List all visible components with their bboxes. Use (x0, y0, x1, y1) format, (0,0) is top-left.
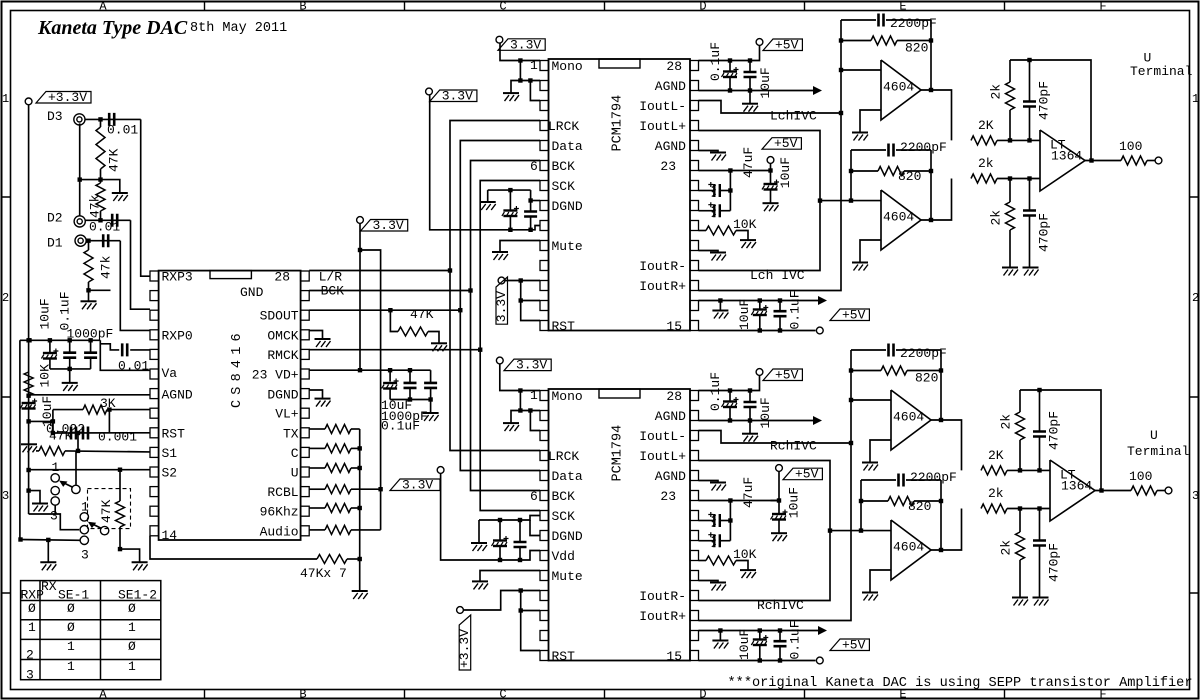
wire inv input 1 (RchIVC) (851, 399, 891, 401)
svg-text:+5V: +5V (842, 308, 866, 323)
junction Va rail bottom (68, 367, 72, 371)
power flag 3.3V (top Mono) (496, 36, 503, 43)
wire S2 row (29, 469, 150, 471)
wire output 1 (RchIVC) (931, 420, 962, 470)
ground 10K (LchIVC) (740, 240, 756, 248)
svg-text:B: B (299, 0, 306, 14)
svg-text:2k: 2k (999, 414, 1014, 430)
svg-text:0.1uF: 0.1uF (708, 42, 723, 81)
wire DGND pin link (top PCM) (531, 200, 540, 202)
ground B (switch area) (132, 562, 148, 570)
resistor 10K (RchIVC) (699, 547, 757, 570)
svg-text:0.1uF: 0.1uF (788, 620, 803, 659)
terminal +5V pin15 (RchIVC) (816, 657, 823, 664)
svg-text:1364: 1364 (1061, 479, 1092, 494)
wire fb1 right vertical (LchIVC) (930, 20, 932, 90)
wire +3.3V rail vertical (28, 105, 30, 514)
wire D3 to RXP3 (141, 119, 150, 276)
svg-text:LchIVC: LchIVC (770, 109, 817, 124)
wire LRCK bus (450, 121, 540, 451)
capacitor 47uF A (LchIVC) (699, 182, 731, 197)
ground 470pF lower (RchIVC) (1033, 598, 1049, 606)
junction mono branch (518, 58, 522, 62)
resistor 47K (C) (325, 444, 351, 453)
svg-text:0.01: 0.01 (89, 220, 120, 235)
svg-text:2k: 2k (989, 84, 1004, 100)
ground (node X) (112, 193, 128, 201)
svg-text:Lch IVC: Lch IVC (750, 268, 805, 283)
capacitor 0.01 (D3) (107, 113, 138, 138)
svg-text:Vdd: Vdd (552, 549, 575, 564)
wire gnd tap 2 (29, 491, 40, 503)
junction LRCK (448, 268, 452, 272)
wire AGND arrow (LchIVC) (699, 90, 815, 92)
junction LT fb (RchIVC) (1037, 388, 1041, 392)
resistor 10K (LchIVC) (699, 217, 757, 240)
wire VD+ row (309, 369, 430, 371)
svg-text:47K: 47K (99, 499, 114, 523)
svg-text:Data: Data (552, 469, 583, 484)
junction Data (458, 308, 462, 312)
svg-text:28: 28 (666, 59, 682, 74)
junctions fb1 left (LchIVC) (839, 38, 843, 72)
svg-text:4604: 4604 (883, 80, 914, 95)
svg-text:47K: 47K (107, 148, 122, 172)
capacitor 0.1uF electrolytic pin28 (LchIVC) (708, 42, 739, 91)
svg-text:D: D (699, 688, 706, 700)
wire fb2 left vertical (LchIVC) (850, 150, 852, 201)
resistor 47K (S1) (39, 446, 65, 455)
junction DGND cluster (508, 188, 512, 192)
svg-text:1: 1 (67, 639, 75, 654)
ground (Va rail) (62, 383, 78, 391)
U3 (bottom/Rch) right pin labels (639, 389, 686, 664)
grid letters bottom (99, 688, 1106, 700)
svg-text:U: U (291, 466, 299, 481)
svg-text:RST: RST (552, 319, 576, 334)
junction IoutL+ node (RchIVC) (828, 528, 832, 532)
svg-text:47K: 47K (49, 429, 73, 444)
svg-text:2k: 2k (989, 210, 1004, 226)
svg-text:Mute: Mute (552, 569, 583, 584)
resistor 3K (FILT) (53, 396, 116, 414)
svg-text:AGND: AGND (655, 79, 686, 94)
wire S1 row (36, 450, 39, 452)
svg-text:3.3V: 3.3V (373, 218, 404, 233)
IC U1 CS8416 body (159, 271, 301, 540)
wire FILT to pin (109, 409, 150, 411)
capacitor 10uF pin15 (RchIVC) (737, 629, 768, 661)
terminal +5V pin15 (LchIVC) (816, 327, 823, 334)
ground (OMCK) (315, 339, 331, 347)
wire +5V stem mid (RchIVC) (771, 471, 780, 500)
wire IoutL- (RchIVC) (699, 431, 852, 444)
wire LT feedback top (RchIVC) (1020, 390, 1101, 491)
ground (bottom PCM DGND) (471, 543, 487, 551)
wire fb2 left vertical (RchIVC) (860, 480, 862, 531)
ground AGND pin5 (LchIVC) (710, 153, 726, 161)
wire row2-row3 tie (top) (530, 81, 540, 101)
svg-text:Ø: Ø (128, 601, 136, 616)
svg-text:Data: Data (552, 139, 583, 154)
svg-text:4604: 4604 (893, 410, 924, 425)
junctions fb1 left (RchIVC) (849, 368, 853, 402)
junction S1 row (76, 449, 80, 453)
wire S1 to switch1 pole (75, 451, 77, 485)
svg-text:1364: 1364 (1051, 149, 1082, 164)
svg-text:RXP3: RXP3 (162, 270, 193, 285)
ground (VD+ caps) (423, 413, 439, 421)
wire top RST tie (505, 280, 540, 282)
ground 2k lower (LchIVC) (1002, 268, 1018, 276)
svg-text:4604: 4604 (883, 210, 914, 225)
capacitor 0.1uF electrolytic pin28 (RchIVC) (708, 372, 739, 421)
capacitor (bottom PCM DGND) (514, 520, 527, 560)
svg-text:AGND: AGND (655, 469, 686, 484)
op-amp 4604 second (LchIVC) (881, 190, 921, 250)
svg-text:3.3V: 3.3V (402, 478, 433, 493)
svg-text:AGND: AGND (655, 409, 686, 424)
svg-text:28: 28 (666, 389, 682, 404)
resistor 820 fb1 (RchIVC) (851, 366, 941, 386)
resistor 2K inv (RchIVC) (981, 448, 1007, 475)
svg-text:DGND: DGND (267, 387, 298, 402)
svg-text:0.001: 0.001 (98, 430, 137, 445)
svg-text:OMCK: OMCK (267, 328, 298, 343)
svg-text:BCK: BCK (321, 284, 345, 299)
arrow +5V row (LchIVC) (818, 296, 827, 305)
CS8416 right pin labels (240, 270, 299, 540)
svg-text:Ø: Ø (67, 620, 75, 635)
ground pin13 (RchIVC) (712, 641, 728, 649)
wire noninv 2 (LchIVC) (860, 240, 881, 262)
power flag 3.3V (bottom Mono) (496, 357, 503, 364)
wire noninv row LT (RchIVC) (1007, 508, 1050, 510)
wire row2-row3 tie (bottom) (530, 411, 540, 431)
U2 (top/Lch) left pin labels (548, 59, 583, 334)
svg-text:BCK: BCK (552, 159, 576, 174)
svg-text:+3.3V: +3.3V (457, 629, 472, 668)
arrow AGND (RchIVC) (813, 416, 822, 425)
svg-text:10uF: 10uF (787, 487, 802, 518)
svg-text:S1: S1 (162, 446, 178, 461)
junctions pin13 row (LchIVC) (718, 298, 782, 302)
terminal output (LchIVC) (1155, 157, 1162, 164)
svg-text:IoutR-: IoutR- (639, 589, 686, 604)
svg-text:820: 820 (898, 169, 921, 184)
junction SW2 area (118, 547, 122, 551)
resistor 47K (TX) (325, 425, 351, 434)
wire LT feedback top (LchIVC) (1010, 60, 1091, 161)
wire pin13 gnd stem (RchIVC) (719, 631, 721, 641)
wire Mute (top PCM) (500, 241, 540, 252)
ground (47K rail) (352, 591, 368, 599)
svg-text:IoutR+: IoutR+ (639, 279, 686, 294)
svg-text:2: 2 (1192, 291, 1199, 305)
connector D2 (74, 216, 85, 227)
svg-text:3: 3 (1192, 489, 1199, 503)
svg-text:RMCK: RMCK (267, 348, 298, 363)
wire VD+ gnd stem (430, 400, 432, 413)
op-amp 4604 first (RchIVC) (891, 390, 931, 450)
wire output terminal (LchIVC) (1147, 160, 1155, 162)
svg-text:RXP0: RXP0 (162, 328, 193, 343)
terminal +5V mid (LchIVC) (767, 157, 774, 164)
svg-text:6: 6 (530, 489, 538, 504)
svg-text:IoutL+: IoutL+ (639, 449, 686, 464)
wire to switch2 pole (29, 514, 80, 530)
wire inv input 2 (LchIVC) (820, 200, 881, 202)
power flag 3.3V (pullup A) (357, 217, 364, 224)
svg-text:RCBL: RCBL (267, 485, 298, 500)
wire BCK bus (471, 161, 541, 491)
capacitor 10uF electrolytic (left column) (20, 396, 55, 427)
wire Audio row (309, 529, 325, 531)
capacitor 10uF electrolytic (VD+) (381, 370, 412, 413)
svg-text:GND: GND (240, 285, 264, 300)
wire inv input 2 (RchIVC) (830, 530, 891, 532)
terminal +5V pin28 (RchIVC) (756, 369, 763, 376)
wire gnd rail x360 (359, 429, 361, 591)
svg-text:470pF: 470pF (1037, 81, 1052, 120)
svg-text:2K: 2K (988, 448, 1004, 463)
ground 10K (RchIVC) (740, 570, 756, 578)
svg-text:28: 28 (274, 270, 290, 285)
junction DGND pin (528, 198, 532, 202)
capacitor 0.1uF (Va) (63, 340, 76, 369)
ground 470pF lower (LchIVC) (1023, 268, 1039, 276)
wire 47uF bus (RchIVC) (729, 501, 731, 541)
svg-text:+5V: +5V (842, 638, 866, 653)
resistor 820 fb2 (LchIVC) (851, 167, 931, 185)
grid letters top (99, 0, 1106, 14)
ground AGND (RchIVC) (742, 434, 758, 442)
svg-text:2k: 2k (978, 156, 994, 171)
wire D3-D2 link (79, 123, 81, 215)
power flag +3.3V vertical (bottom RST) (457, 607, 464, 614)
ground 10uF mid (LchIVC) (763, 203, 779, 211)
junction D1 node (86, 239, 90, 243)
svg-text:0.01: 0.01 (107, 123, 138, 138)
wire SCK bus (480, 181, 540, 511)
svg-text:0.1uF: 0.1uF (708, 372, 723, 411)
svg-text:+5V: +5V (775, 38, 799, 53)
junction VD+ caps bottom (408, 397, 433, 401)
ground tap (left column) (21, 444, 37, 452)
svg-text:2200pF: 2200pF (900, 140, 947, 155)
svg-text:6: 6 (530, 159, 538, 174)
wire x20 vertical (19, 340, 21, 539)
wire bottom RST vertical (521, 591, 540, 651)
wire row2 gnd (top PCM) (511, 81, 540, 93)
svg-text:47uF: 47uF (741, 147, 756, 178)
capacitor electrolytic (bottom PCM DGND) (492, 520, 509, 560)
wire noninv row LT (LchIVC) (997, 178, 1040, 180)
wire DGND cluster top (488, 189, 531, 191)
junction row2 (bottom) (518, 408, 532, 412)
wire 0.01 Va jog (100, 344, 119, 350)
junctions AGND wire (RchIVC) (728, 418, 752, 422)
terminal +5V mid (RchIVC) (776, 465, 783, 472)
junction bottom RST tie (519, 588, 523, 612)
junction top RST tie (519, 278, 523, 302)
svg-text:23 VD+: 23 VD+ (252, 368, 299, 383)
wire DGND cluster top (bottom PCM) (479, 516, 540, 521)
ground row10 (LchIVC) (710, 253, 726, 261)
svg-text:2: 2 (2, 291, 9, 305)
resistor 47k (second) (88, 180, 106, 220)
wire D1 ground stub (89, 289, 111, 291)
capacitor 0.001 (RST row) (83, 427, 137, 445)
svg-text:100: 100 (1119, 139, 1142, 154)
wire 3.3V Vdd rail (bottom) (441, 473, 540, 560)
wire noninv 1 (LchIVC) (860, 110, 881, 132)
svg-text:IoutL-: IoutL- (639, 99, 686, 114)
resistor 2k lower vertical (RchIVC) (999, 509, 1025, 598)
svg-text:A: A (99, 0, 107, 14)
table RX selection (21, 581, 161, 680)
junction 47uF bus (LchIVC) (728, 188, 732, 192)
svg-text:IoutL+: IoutL+ (639, 119, 686, 134)
wire AGND gnd stem (LchIVC) (749, 91, 751, 104)
wire RCBL to pullup (351, 488, 381, 490)
svg-text:2200pF: 2200pF (910, 470, 957, 485)
wire IoutL+ loop (RchIVC) (699, 461, 831, 601)
svg-text:IoutR+: IoutR+ (639, 609, 686, 624)
resistor 100 output (LchIVC) (1119, 139, 1147, 165)
svg-text:RchIVC: RchIVC (770, 439, 817, 454)
svg-text:1: 1 (530, 388, 538, 403)
wire IoutR+ (LchIVC) (699, 113, 842, 291)
ground (top PCM DGND) (480, 202, 496, 210)
connector D1 (75, 235, 86, 246)
wire row10 gnd (RchIVC) (699, 581, 719, 583)
wire RST row (53, 432, 150, 434)
junction sw row (18, 537, 50, 542)
wire DGND gnd stem (top PCM) (487, 190, 489, 201)
wire OMCK gnd hook (309, 331, 322, 339)
svg-text:0.1uF: 0.1uF (788, 290, 803, 329)
svg-text:10uF: 10uF (778, 157, 793, 188)
wire pin13 arrow row (LchIVC) (699, 300, 819, 302)
svg-text:1: 1 (2, 92, 9, 106)
ground (bottom PCM rows 2-3) (503, 423, 519, 431)
wire BCK row (309, 290, 470, 292)
junctions pin28 rail (RchIVC) (728, 388, 752, 392)
capacitor 0.022 (RST row) (71, 427, 76, 440)
svg-text:1: 1 (52, 460, 60, 475)
junctions pin13 row (RchIVC) (718, 628, 782, 632)
resistor 2k fb vertical (RchIVC) (999, 390, 1025, 470)
svg-text:C: C (499, 0, 506, 14)
wire U to rail (351, 467, 360, 469)
svg-text:100: 100 (1129, 469, 1152, 484)
ground (top Mute) (492, 252, 508, 260)
wire mono to row2 (bottom) (519, 391, 521, 411)
wire fb2 right vertical (RchIVC) (940, 480, 942, 550)
junction SCK (478, 348, 482, 352)
svg-text:10uF: 10uF (758, 397, 773, 428)
svg-text:Kaneta Type DAC: Kaneta Type DAC (37, 17, 188, 39)
wire LT output (RchIVC) (1095, 490, 1131, 492)
junction BCK (468, 288, 472, 292)
wire TX row (309, 428, 325, 430)
resistor 100 output (RchIVC) (1129, 469, 1157, 495)
svg-text:DGND: DGND (552, 529, 583, 544)
svg-text:820: 820 (908, 499, 931, 514)
wire 3.3V DGND rail (430, 94, 540, 229)
svg-text:DGND: DGND (552, 199, 583, 214)
wire gndA stem (47, 540, 49, 562)
junctions pin15 row (LchIVC) (758, 328, 783, 332)
capacitor 470pF lower (LchIVC) (1023, 179, 1052, 268)
svg-text:2k: 2k (988, 486, 1004, 501)
svg-text:Terminal: Terminal (1130, 64, 1193, 79)
wire fb1 left vertical (RchIVC) (850, 350, 852, 443)
wire SW1 throw3 stem (54, 505, 56, 514)
junction 3.3V branch (358, 248, 362, 252)
junctions noninv row LT (RchIVC) (1018, 506, 1042, 510)
svg-text:96Khz: 96Khz (260, 505, 299, 520)
wire fb1 right vertical (RchIVC) (940, 350, 942, 420)
capacitor 0.1uF (VD+) (381, 370, 437, 434)
capacitor 2200pF fb1 (RchIVC) (851, 344, 947, 362)
svg-text:3.3V: 3.3V (516, 358, 547, 373)
svg-text:RST: RST (552, 649, 576, 664)
svg-text:F: F (1099, 0, 1106, 14)
capacitor 2200pF fb2 (RchIVC) (861, 470, 957, 487)
junctions inv row LT (LchIVC) (1008, 138, 1032, 142)
junctions pin23 rail (LchIVC) (728, 168, 773, 172)
power flag 3.3V (top DGND rail) (426, 88, 433, 95)
wire AGND arrow (RchIVC) (699, 420, 815, 422)
svg-text:47Kx 7: 47Kx 7 (300, 566, 347, 581)
svg-text:Ø: Ø (67, 601, 75, 616)
ground noninv 2 (RchIVC) (862, 593, 878, 601)
U2 (top/Lch) right pin labels (639, 59, 686, 334)
wire SDOUT row (309, 309, 460, 311)
capacitor 470pF lower (RchIVC) (1033, 509, 1062, 598)
svg-text:4604: 4604 (893, 540, 924, 555)
wire row2 gnd (bottom PCM) (511, 411, 540, 423)
power flag 3.3V (bottom Vdd rail) (437, 467, 444, 474)
wire RCBL row (309, 488, 325, 490)
U3 (bottom/Rch) left pin labels (548, 389, 583, 664)
junctions pin28 rail (LchIVC) (728, 58, 752, 62)
svg-text:CS8416: CS8416 (230, 328, 245, 408)
op-amp 4604 second (RchIVC) (891, 520, 931, 580)
svg-text:Mono: Mono (552, 59, 583, 74)
junction FILT (107, 407, 111, 411)
wire DGND gnd hook (309, 390, 322, 398)
ground (D1) (81, 301, 97, 309)
svg-text:IoutL-: IoutL- (639, 429, 686, 444)
resistor 10K (left column) (24, 364, 52, 396)
capacitor 2200pF fb1 (LchIVC) (841, 14, 937, 32)
wire pin15 row (LchIVC) (699, 330, 816, 332)
capacitor 470pF fb (RchIVC) (1033, 390, 1062, 470)
wire 3.3V down (359, 223, 361, 370)
resistor 47K (Audio) (325, 525, 351, 534)
capacitor 0.01 (D2) (89, 214, 120, 235)
junctions fb2 right (RchIVC) (939, 499, 943, 552)
junction IoutL+ node (LchIVC) (818, 198, 822, 202)
svg-text:15: 15 (666, 649, 682, 664)
ground (bottom Mute) (472, 581, 488, 589)
svg-text:RchIVC: RchIVC (757, 598, 804, 613)
ground 2k lower (RchIVC) (1012, 598, 1028, 606)
grid numbers right (1192, 92, 1199, 503)
